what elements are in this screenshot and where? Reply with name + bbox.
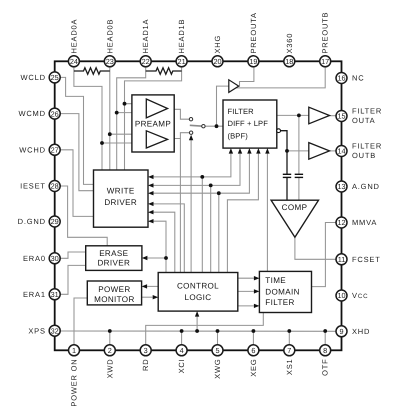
svg-text:XEG: XEG [249, 359, 258, 377]
wire power monitor to control logic [142, 296, 153, 298]
svg-text:WCHD: WCHD [19, 145, 46, 154]
power monitor box [87, 281, 141, 305]
svg-text:XS1: XS1 [285, 359, 294, 376]
svg-text:IESET: IESET [20, 182, 46, 191]
wire control logic to power monitor [147, 285, 158, 287]
switch contact B [189, 131, 192, 134]
node rail pin6 [252, 329, 256, 333]
node rail ctl [195, 329, 199, 333]
svg-text:2: 2 [108, 346, 112, 355]
arrowhead into write driver 5 [148, 210, 154, 214]
svg-text:NC: NC [352, 74, 364, 83]
svg-text:WRITE: WRITE [107, 186, 135, 195]
wire filter in1 to control logic [201, 177, 203, 273]
wire filter in5 from TIME DOMAIN FILTER [266, 154, 268, 272]
pin 8 OTF [320, 345, 331, 356]
wire preamp out B [174, 133, 189, 139]
wire pin27 WCHD to WRITE DRIVER [60, 150, 93, 217]
wire pin30 ERA0 to ERASE DRIVER [60, 252, 86, 258]
svg-text:XHG: XHG [213, 35, 222, 54]
svg-text:20: 20 [213, 57, 221, 66]
svg-text:X360: X360 [285, 33, 294, 54]
svg-text:13: 13 [337, 182, 345, 191]
svg-text:22: 22 [142, 57, 150, 66]
svg-text:D.GND: D.GND [18, 217, 46, 226]
svg-text:POWER: POWER [98, 285, 130, 294]
svg-text:DIFF + LPF: DIFF + LPF [228, 119, 269, 128]
wire pin3 RD to TIME DOMAIN FILTER [146, 313, 264, 345]
arrowhead into write driver 1 [148, 175, 154, 179]
svg-text:LOGIC: LOGIC [185, 293, 212, 302]
svg-text:WCMD: WCMD [18, 109, 45, 118]
node rail pin7 [287, 329, 291, 333]
arrowhead control logic to TDF 1 [254, 276, 260, 280]
buffer U2 (pin19) [229, 80, 239, 93]
svg-text:11: 11 [338, 255, 346, 264]
wire stub pin7 [288, 331, 290, 345]
svg-text:16: 16 [337, 74, 345, 83]
arrowhead into write driver 4 [148, 202, 154, 206]
node wd1 [200, 175, 204, 179]
wire filter in2 to control logic [210, 185, 212, 272]
arrowhead into filter bottom 3 [247, 148, 251, 154]
wire stub pin6 [252, 331, 254, 345]
arrowhead into write driver 6 [148, 219, 154, 223]
svg-text:28: 28 [51, 182, 59, 191]
buffer U3 (pin15) [309, 107, 330, 124]
pin 22 HEAD1A [140, 56, 151, 67]
svg-text:OUTB: OUTB [352, 151, 376, 160]
wire buffer U2 input from filter node [217, 86, 229, 126]
preamp amp A [146, 99, 167, 118]
svg-text:POWER ON: POWER ON [70, 359, 79, 407]
node erase branch [164, 256, 168, 260]
arrowhead into control logic bottom [195, 311, 199, 317]
wire control logic to TDF 3 [238, 305, 254, 307]
svg-text:(BPF): (BPF) [228, 131, 249, 140]
svg-text:12: 12 [337, 218, 345, 227]
arrowhead into erase driver [142, 256, 148, 260]
pin 23 HEAD0B [104, 56, 115, 67]
wire stub pin8 [324, 331, 326, 345]
svg-text:HEAD1B: HEAD1B [177, 19, 186, 54]
arrowhead into filter bottom 5 [265, 148, 269, 154]
wire pin12 MMVA to TIME DOMAIN FILTER [312, 223, 337, 287]
erase driver box [86, 246, 142, 271]
node preamp in2 [115, 111, 119, 115]
filter out B terminal [277, 129, 281, 133]
pin 21 HEAD1B [176, 56, 187, 67]
wire control logic to TDF 2 [238, 290, 254, 292]
wire head pin23 [109, 67, 111, 170]
svg-text:XPS: XPS [28, 326, 45, 335]
svg-text:27: 27 [51, 146, 59, 155]
wire filter in3 to control logic [218, 193, 220, 272]
svg-text:OUTA: OUTA [352, 116, 375, 125]
wire stub pin2 [109, 331, 111, 345]
pin 19 PREOUTA [248, 56, 259, 67]
svg-text:XWD: XWD [105, 359, 114, 379]
arrowhead into filter bottom 4 [256, 148, 260, 154]
wire XPS rail [60, 330, 336, 332]
svg-text:4: 4 [180, 346, 184, 355]
svg-text:OTF: OTF [321, 359, 330, 376]
svg-text:FILTER: FILTER [228, 107, 255, 116]
pin 2 XWD [104, 345, 115, 356]
pin 5 XWG [212, 345, 223, 356]
svg-text:ERA0: ERA0 [23, 254, 46, 263]
svg-text:HEAD1A: HEAD1A [141, 19, 150, 54]
filter box [223, 100, 277, 148]
arrowhead control logic to TDF 2 [254, 289, 260, 293]
arrowhead into write driver 3 [148, 191, 154, 195]
svg-text:TIME: TIME [265, 276, 286, 285]
node preamp in1 [123, 102, 127, 106]
pin 18 X360 [284, 56, 295, 67]
svg-text:XCI: XCI [177, 359, 186, 374]
pin 3 RD [140, 345, 151, 356]
node buffer U4 tap [285, 149, 289, 153]
pin 28 IESET [49, 181, 60, 192]
svg-text:14: 14 [337, 147, 345, 156]
svg-text:FILTER: FILTER [352, 142, 382, 151]
svg-text:DOMAIN: DOMAIN [265, 288, 299, 297]
pin 27 WCHD [49, 144, 60, 155]
capacitor C2 plates [295, 173, 303, 175]
svg-text:MONITOR: MONITOR [94, 295, 135, 304]
switch blade [190, 124, 203, 127]
node filter input [215, 124, 219, 128]
wire write driver in4 [154, 204, 185, 273]
wire pin26 WCMD to WRITE DRIVER [60, 114, 93, 191]
svg-text:WCLD: WCLD [21, 73, 46, 82]
wire pin1 POWER ON to POWER MONITOR [74, 298, 87, 345]
comp triangle [271, 200, 318, 237]
wire filter in1 net [154, 154, 231, 177]
svg-text:18: 18 [285, 57, 293, 66]
pin 17 PREOUTB [320, 56, 331, 67]
node filter outA [297, 114, 301, 118]
svg-text:PREOUTB: PREOUTB [321, 12, 330, 54]
wire control logic to TDF 1 [238, 277, 254, 279]
wire filter in3 net [154, 154, 250, 194]
svg-text:ERA1: ERA1 [23, 290, 46, 299]
svg-text:FCSET: FCSET [352, 255, 381, 264]
svg-text:FILTER: FILTER [265, 298, 294, 307]
node wd2 [209, 184, 213, 188]
svg-text:32: 32 [51, 326, 59, 335]
wire switch control to CONTROL LOGIC [190, 139, 192, 273]
pin 13 A.GND [336, 181, 347, 192]
svg-text:21: 21 [178, 57, 186, 66]
arrowhead switch control [189, 135, 193, 141]
node rail pin8 [323, 329, 327, 333]
svg-text:25: 25 [51, 73, 59, 82]
svg-text:9: 9 [339, 327, 343, 336]
pin 9 XHD [336, 326, 347, 337]
wire preamp input4 [102, 142, 146, 144]
svg-text:A.GND: A.GND [352, 182, 380, 191]
pin 14 FILTER OUTB [336, 146, 347, 157]
pin 16 NC [336, 73, 347, 84]
node wd3 [217, 191, 221, 195]
svg-text:6: 6 [251, 346, 255, 355]
svg-text:XHD: XHD [352, 327, 370, 336]
svg-text:24: 24 [70, 57, 78, 66]
svg-text:DRIVER: DRIVER [97, 259, 130, 268]
wire write driver in6 [154, 221, 167, 272]
wire head pin24 [74, 67, 102, 170]
svg-text:17: 17 [321, 57, 329, 66]
arrowhead into power monitor [142, 284, 148, 288]
svg-text:31: 31 [51, 290, 59, 299]
wire COMP out to pin11 FCSET [295, 237, 336, 259]
node rail pin2 [108, 329, 112, 333]
svg-text:CONTROL: CONTROL [177, 282, 219, 291]
wire buffer U2 out to pin19 [239, 67, 254, 86]
pin 25 WCLD [49, 72, 60, 83]
wire pin28 IESET to ERASE DRIVER top [60, 186, 107, 246]
control logic box [158, 273, 238, 312]
pin 30 ERA0 [49, 253, 60, 264]
capacitor C1 feed (black) [281, 131, 288, 175]
buffer U4 (pin14) [309, 143, 330, 160]
wire filter in2 net [154, 154, 241, 186]
pin 29 D.GND [49, 216, 60, 227]
svg-text:15: 15 [337, 112, 345, 121]
svg-text:10: 10 [337, 291, 345, 300]
svg-text:30: 30 [51, 254, 59, 263]
write driver box [94, 170, 149, 227]
wire buffer U4 out to pin14 [330, 150, 337, 152]
capacitor C1 plates [283, 173, 291, 175]
wire stub pin5 [217, 331, 219, 345]
wire CONTROL LOGIC bottom to rail [196, 316, 198, 331]
wire cap C2 lower [298, 177, 300, 200]
preamp amp B [146, 131, 167, 148]
svg-text:MMVA: MMVA [352, 218, 377, 227]
svg-text:COMP: COMP [282, 203, 308, 212]
arrowhead control logic to TDF 3 [254, 304, 260, 308]
node rail pin5 [216, 329, 220, 333]
wire write driver in5 [154, 212, 175, 272]
svg-text:3: 3 [144, 346, 148, 355]
pin 11 FCSET [336, 254, 347, 265]
svg-text:PREOUTA: PREOUTA [249, 12, 258, 53]
pin 31 ERA1 [49, 289, 60, 300]
switch pole [202, 125, 205, 128]
wire pin17 PREOUTB [235, 67, 325, 88]
wire head pin22 [117, 67, 146, 170]
pin 4 XCI [176, 345, 187, 356]
svg-text:1: 1 [72, 346, 76, 355]
pin 20 XHG [212, 56, 223, 67]
svg-text:DRIVER: DRIVER [104, 198, 137, 207]
wire pin31 ERA1 to ERASE DRIVER [60, 265, 86, 294]
pin 1 POWER ON [69, 345, 80, 356]
pin 26 WCMD [49, 108, 60, 119]
svg-text:8: 8 [323, 346, 327, 355]
pin 12 MMVA [336, 217, 347, 228]
pin 6 XEG [248, 345, 259, 356]
wire buffer U3 to pin15 [330, 115, 337, 117]
svg-text:7: 7 [287, 346, 291, 355]
wire preamp out A [174, 109, 189, 119]
pin 32 XPS [49, 325, 60, 336]
pin 10 Vcc [336, 290, 347, 301]
wire filter in4 net [227, 154, 258, 273]
arrowhead into filter bottom 1 [229, 148, 233, 154]
wire stub pin4 [181, 331, 183, 345]
node preamp in3 [108, 132, 112, 136]
wire head pin21 [125, 67, 182, 170]
svg-text:ERASE: ERASE [99, 249, 128, 258]
chip outline [55, 61, 342, 350]
wire preamp input2 [117, 112, 147, 114]
svg-text:VCC: VCC [352, 291, 368, 300]
resistor R1 [74, 68, 110, 74]
wire buffer U4 input tap [287, 150, 309, 152]
resistor R2 [146, 68, 182, 74]
pin 24 HEAD0A [68, 56, 79, 67]
svg-text:PREAMP: PREAMP [135, 120, 171, 129]
node rail pin4 [180, 329, 184, 333]
wire FILTER out A [277, 114, 309, 116]
arrowhead into write driver 2 [148, 183, 154, 187]
svg-text:5: 5 [215, 346, 219, 355]
svg-text:29: 29 [51, 217, 59, 226]
svg-text:26: 26 [51, 109, 59, 118]
preamp box U1 [132, 95, 174, 152]
wire preamp input1 [125, 103, 147, 105]
time domain filter box [259, 271, 311, 312]
svg-text:FILTER: FILTER [352, 107, 382, 116]
switch contact A [189, 118, 192, 121]
svg-text:19: 19 [249, 57, 257, 66]
pin 7 XS1 [284, 345, 295, 356]
wire preamp input3 [110, 133, 147, 135]
svg-text:HEAD0A: HEAD0A [69, 19, 78, 54]
svg-text:RD: RD [141, 359, 150, 371]
wire cap C2 branch [298, 115, 300, 174]
node preamp in4 [100, 141, 104, 145]
wire preamp ctl down to CONTROL LOGIC [179, 139, 181, 273]
wire erase driver branch [147, 257, 166, 259]
svg-text:XWG: XWG [213, 359, 222, 379]
svg-text:HEAD0B: HEAD0B [105, 19, 114, 54]
arrowhead into control logic left [153, 295, 159, 299]
svg-text:23: 23 [106, 57, 114, 66]
arrowhead into filter bottom 2 [238, 148, 242, 154]
pin 15 FILTER OUTA [336, 111, 347, 122]
wire pin25 WCLD to WRITE DRIVER [60, 77, 93, 184]
wire switch pole to FILTER [205, 125, 223, 127]
